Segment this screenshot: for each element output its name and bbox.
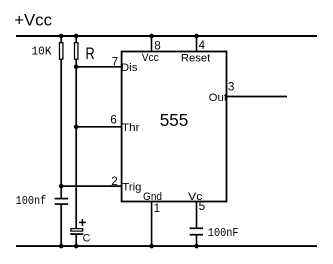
svg-text:7: 7: [112, 55, 119, 68]
junction dot pin1 at bottom rail: [149, 244, 154, 249]
pin 8 wire (Vcc): [151, 36, 153, 52]
capacitor C1 100nf bottom plate: [55, 203, 68, 205]
svg-text:6: 6: [110, 114, 117, 127]
wire R1 bottom to capacitor C1 (through Trig node): [60, 59, 62, 198]
capacitor C3 100nF top plate: [190, 227, 203, 229]
capacitor C2 (electrolytic) bottom plate: [70, 233, 83, 235]
pin 5 wire lower to ground rail: [196, 236, 198, 247]
junction dot R2 at top rail: [74, 34, 79, 39]
svg-text:Gnd: Gnd: [143, 191, 162, 203]
pin 2 wire (Trig): [61, 185, 121, 187]
svg-text:4: 4: [199, 39, 206, 52]
svg-text:Vc: Vc: [188, 191, 203, 203]
svg-text:3: 3: [228, 81, 235, 94]
capacitor C2 polarity plus sign: [79, 219, 86, 226]
resistor R2 (R): [75, 43, 78, 60]
svg-text:Vcc: Vcc: [142, 52, 159, 64]
junction dot Dis node: [74, 65, 79, 70]
wire rail to resistor R1 top: [60, 36, 62, 43]
svg-text:Trig: Trig: [122, 181, 141, 193]
junction dot C1 at bottom rail: [59, 244, 64, 249]
svg-text:C: C: [83, 233, 91, 245]
capacitor C3 100nF bottom plate: [190, 234, 203, 236]
svg-text:2: 2: [111, 175, 118, 188]
resistor R1 (10K): [60, 43, 63, 60]
junction dot R1 at top rail: [59, 34, 64, 39]
svg-text:100nF: 100nF: [208, 227, 239, 240]
pin 3 wire (Out): [227, 96, 288, 98]
svg-text:1: 1: [154, 202, 161, 215]
svg-text:Dis: Dis: [121, 62, 138, 74]
svg-text:Out: Out: [209, 92, 228, 104]
svg-text:Reset: Reset: [181, 53, 211, 65]
wire C1 bottom to ground rail: [60, 205, 62, 246]
capacitor C1 100nf top plate: [55, 198, 68, 200]
wire rail to resistor R2 top: [75, 36, 77, 43]
svg-text:R: R: [86, 45, 95, 63]
pin 5 wire upper (Vc): [196, 202, 198, 228]
wire bottom ground rail: [16, 245, 317, 247]
svg-text:555: 555: [160, 110, 189, 130]
junction dot pin8 at top rail: [149, 34, 154, 39]
pin 6 wire (Thr): [76, 126, 121, 128]
junction dot Thr node: [74, 125, 79, 130]
svg-text:Thr: Thr: [122, 122, 140, 134]
svg-text:10K: 10K: [32, 46, 52, 59]
junction dot C2 at bottom rail: [74, 244, 79, 249]
junction dot pin4 at top rail: [194, 34, 199, 39]
wire C2 bottom to ground rail: [75, 235, 77, 246]
capacitor C2 (electrolytic) top plate: [70, 228, 83, 232]
pin 4 wire (Reset): [196, 36, 198, 52]
pin 7 wire (Dis): [76, 66, 121, 68]
junction dot pin5 at bottom rail: [194, 244, 199, 249]
junction dot Trig node: [59, 184, 64, 189]
svg-text:100nf: 100nf: [16, 195, 47, 208]
svg-text:8: 8: [154, 40, 161, 53]
wire top Vcc rail: [16, 35, 317, 37]
svg-text:+Vcc: +Vcc: [14, 10, 52, 29]
op IC U1 555 body: [122, 52, 227, 202]
pin 1 wire (Gnd): [151, 202, 153, 247]
wire R2 bottom to capacitor C2 (through Dis and Thr nodes): [75, 59, 77, 228]
